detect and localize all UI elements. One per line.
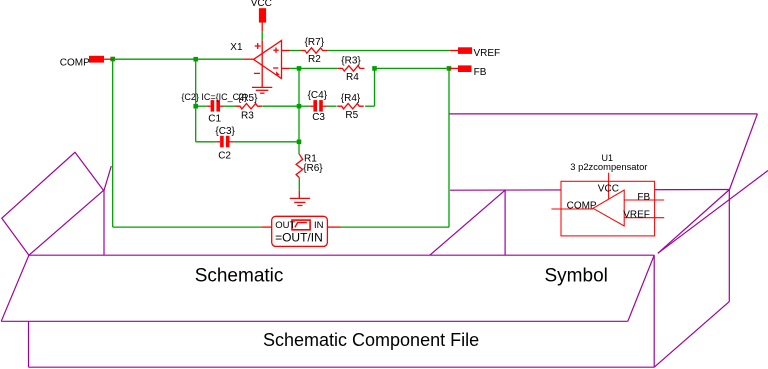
symbol pin COMP — [551, 208, 593, 210]
wire R4 right to FB node — [375, 67, 450, 69]
wire C3 to R5 — [327, 105, 337, 107]
box back-left corner edge — [103, 190, 105, 255]
wire right riser up to FB — [448, 68, 450, 227]
box right flap top edge — [449, 113, 757, 115]
box front face bottom edge — [29, 366, 655, 368]
svg-text:FB: FB — [474, 67, 487, 78]
port pad FB — [458, 65, 472, 72]
wire R1 bottom to ground — [298, 178, 300, 191]
svg-text:IN: IN — [314, 220, 324, 231]
wire bottom left to probe — [113, 226, 262, 228]
node COMP junction — [110, 57, 115, 62]
wire R5 to corner — [365, 105, 374, 107]
wire C2 rail left — [196, 141, 217, 143]
box front-right slant edge — [628, 255, 654, 321]
wire COMP node to op-amp output — [113, 58, 244, 60]
box right back corner edge — [728, 190, 730, 302]
wire C2 rail right — [233, 141, 299, 143]
svg-text:=OUT/IN: =OUT/IN — [275, 231, 323, 245]
box back top edge — [450, 189, 730, 192]
node top-left junction — [193, 57, 198, 62]
port pad VCC — [259, 8, 266, 22]
wire node to C1 — [196, 105, 207, 107]
wire VCC to op-amp power pin — [261, 31, 263, 40]
symbol pin FB — [624, 199, 664, 201]
svg-text:Schematic Component File: Schematic Component File — [263, 330, 479, 350]
svg-text:OUT: OUT — [275, 220, 295, 231]
wire corner up to minus rail — [374, 68, 376, 106]
box front face left edge — [28, 321, 30, 367]
capacitor C1 — [207, 100, 224, 112]
resistor R4 — [338, 66, 365, 71]
svg-text:{R6}: {R6} — [303, 163, 323, 174]
svg-text:Schematic: Schematic — [195, 266, 284, 287]
symbol U1 body — [561, 181, 655, 236]
port pad COMP — [89, 56, 104, 63]
box front face top edge — [1, 320, 628, 322]
wire R2 to VREF pad — [327, 50, 450, 52]
node C1 rail left junction — [193, 104, 198, 109]
svg-text:C1: C1 — [208, 113, 221, 124]
box left front slant edge — [1, 255, 29, 321]
port pad VREF — [458, 47, 472, 54]
svg-text:{R7}: {R7} — [305, 37, 325, 48]
wire R3 to mid node — [262, 105, 299, 107]
svg-text:X1: X1 — [230, 42, 243, 53]
box front face right edge — [653, 255, 655, 367]
svg-text:{C3}: {C3} — [215, 126, 235, 137]
svg-text:COMP: COMP — [567, 200, 597, 211]
svg-text:3 p2zcompensator: 3 p2zcompensator — [570, 161, 647, 172]
svg-text:VREF: VREF — [623, 210, 650, 221]
svg-text:{R5}: {R5} — [238, 93, 258, 104]
node minus rail right junction — [372, 66, 377, 71]
wire C1 to R3 — [224, 105, 236, 107]
svg-text:{C4}: {C4} — [308, 90, 328, 101]
ground under op-amp — [252, 87, 272, 93]
capacitor C3 — [310, 100, 327, 112]
box right bottom edge — [654, 302, 729, 368]
wire COMP node down left side — [112, 59, 114, 227]
resistor R5 — [337, 104, 364, 109]
svg-text:C3: C3 — [312, 112, 325, 123]
box inner band top edge — [29, 254, 654, 256]
node C2 rail right junction — [297, 140, 302, 145]
svg-text:Symbol: Symbol — [545, 266, 608, 287]
svg-text:{R3}: {R3} — [341, 56, 361, 67]
wire op-amp minus stub to node — [290, 67, 299, 69]
svg-text:C2: C2 — [218, 150, 231, 161]
svg-text:R5: R5 — [345, 110, 358, 121]
symbol pin VREF — [624, 217, 664, 219]
box middle wedge vertical edge — [504, 190, 506, 255]
wire probe to right riser — [341, 226, 450, 228]
node FB junction — [447, 66, 452, 71]
box left flap — [2, 152, 104, 255]
box right flap lower edge — [658, 171, 768, 254]
svg-text:{R4}: {R4} — [341, 93, 361, 104]
box right flap right edge — [730, 114, 758, 190]
box middle wedge diagonal edge — [430, 190, 505, 255]
svg-text:R4: R4 — [346, 72, 359, 83]
wire mid node to C3 — [299, 105, 310, 107]
box right inner diagonal edge — [658, 190, 730, 254]
symbol op-amp triangle — [593, 190, 624, 226]
symbol pin VCC — [608, 173, 610, 199]
wire left vertical C1 branch — [195, 59, 197, 142]
capacitor C2 — [216, 136, 233, 148]
svg-text:R3: R3 — [241, 111, 254, 122]
svg-text:FB: FB — [637, 192, 650, 203]
svg-text:COMP: COMP — [60, 58, 90, 69]
resistor R2 — [301, 48, 328, 53]
op-amp X1 — [243, 40, 290, 87]
svg-text:VREF: VREF — [474, 48, 501, 59]
svg-text:R2: R2 — [308, 54, 321, 65]
resistor R3 — [236, 104, 263, 109]
wire center vertical branch — [298, 68, 300, 154]
node minus rail left junction — [297, 66, 302, 71]
box hidden left flap edge stub — [104, 166, 111, 190]
resistor R1 — [296, 154, 303, 177]
ground under R1 — [290, 191, 310, 206]
wire minus node to R4 — [299, 67, 338, 69]
wire op-amp plus to R2 — [290, 50, 301, 52]
svg-text:VCC: VCC — [251, 0, 272, 9]
svg-text:VCC: VCC — [598, 184, 619, 195]
probe block OUT/IN — [262, 216, 341, 246]
node mid rail junction — [297, 104, 302, 109]
